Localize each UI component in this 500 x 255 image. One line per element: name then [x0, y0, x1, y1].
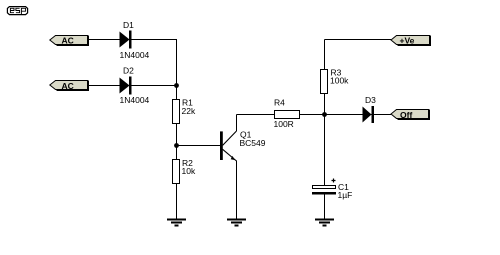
svg-text:AC: AC: [62, 36, 74, 46]
svg-text:AC: AC: [62, 81, 74, 91]
svg-text:1N4004: 1N4004: [120, 50, 150, 60]
svg-text:R4: R4: [274, 98, 285, 108]
svg-text:Off: Off: [400, 110, 412, 120]
svg-text:100R: 100R: [274, 119, 294, 129]
svg-text:22k: 22k: [182, 106, 196, 116]
svg-text:D2: D2: [123, 66, 134, 76]
svg-text:D3: D3: [365, 95, 376, 105]
svg-text:100k: 100k: [330, 76, 349, 86]
svg-text:1µF: 1µF: [338, 190, 353, 200]
svg-text:D1: D1: [123, 20, 134, 30]
svg-text:10k: 10k: [182, 166, 196, 176]
svg-text:1N4004: 1N4004: [120, 95, 150, 105]
svg-text:+Ve: +Ve: [400, 36, 415, 46]
svg-text:BC549: BC549: [240, 138, 266, 148]
